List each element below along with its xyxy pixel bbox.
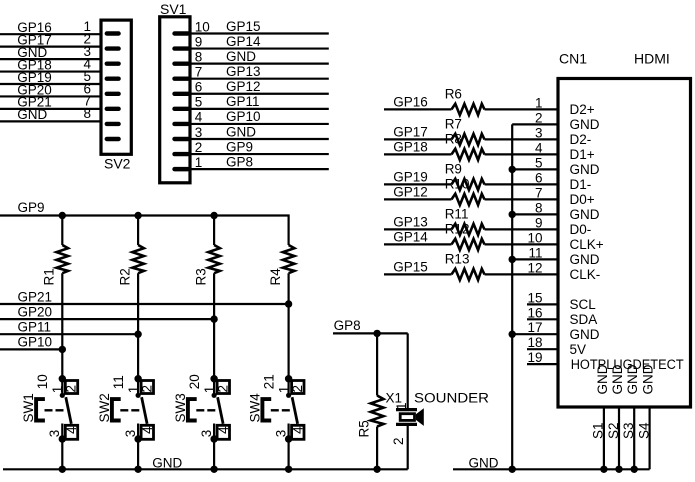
svg-text:11: 11: [528, 245, 542, 260]
svg-text:12: 12: [527, 260, 542, 275]
svg-text:GND: GND: [610, 364, 625, 394]
svg-text:HDMI: HDMI: [634, 50, 670, 66]
svg-text:7: 7: [195, 65, 203, 80]
svg-text:15: 15: [527, 290, 542, 305]
svg-text:4: 4: [216, 426, 231, 434]
svg-text:20: 20: [187, 374, 202, 389]
svg-text:10: 10: [195, 19, 210, 34]
svg-text:R9: R9: [445, 162, 462, 177]
svg-text:R8: R8: [445, 132, 462, 147]
svg-text:GP9: GP9: [18, 200, 45, 215]
svg-text:R13: R13: [445, 252, 470, 267]
svg-text:R6: R6: [445, 87, 462, 102]
svg-text:GP13: GP13: [226, 64, 261, 79]
svg-text:GP12: GP12: [226, 79, 261, 94]
svg-text:S4: S4: [636, 422, 651, 439]
svg-text:D0-: D0-: [570, 222, 592, 237]
svg-text:11: 11: [111, 375, 126, 389]
svg-text:GP9: GP9: [226, 139, 253, 154]
svg-text:1: 1: [50, 386, 65, 394]
svg-text:5: 5: [195, 95, 203, 110]
svg-text:GP10: GP10: [226, 109, 261, 124]
svg-text:GP8: GP8: [334, 318, 361, 333]
svg-text:1: 1: [276, 386, 291, 394]
svg-text:2: 2: [290, 385, 305, 393]
svg-text:GP11: GP11: [226, 94, 260, 109]
svg-text:D2-: D2-: [570, 132, 592, 147]
svg-text:1: 1: [535, 95, 543, 110]
svg-text:GND: GND: [570, 207, 600, 222]
svg-text:GP17: GP17: [393, 125, 428, 140]
svg-text:4: 4: [140, 426, 155, 434]
svg-text:6: 6: [195, 80, 203, 95]
svg-text:GP10: GP10: [18, 335, 53, 350]
svg-text:18: 18: [527, 335, 542, 350]
svg-text:CLK-: CLK-: [570, 267, 601, 282]
svg-text:SDA: SDA: [570, 312, 598, 327]
svg-text:3: 3: [199, 430, 214, 438]
svg-text:CN1: CN1: [559, 50, 587, 66]
svg-text:1: 1: [394, 402, 409, 410]
svg-text:9: 9: [535, 215, 543, 230]
svg-text:R7: R7: [445, 117, 462, 132]
svg-text:S1: S1: [591, 422, 606, 439]
svg-text:R11: R11: [445, 207, 469, 222]
svg-text:8: 8: [535, 200, 543, 215]
svg-text:GND: GND: [570, 117, 600, 132]
svg-text:GP14: GP14: [393, 230, 428, 245]
svg-text:21: 21: [261, 374, 276, 389]
svg-text:3: 3: [195, 125, 203, 140]
svg-text:R10: R10: [445, 177, 470, 192]
svg-text:2: 2: [139, 385, 154, 393]
svg-text:16: 16: [527, 305, 542, 320]
svg-text:SW2: SW2: [97, 393, 112, 422]
svg-text:7: 7: [535, 185, 543, 200]
svg-text:CLK+: CLK+: [570, 237, 604, 252]
svg-text:6: 6: [535, 170, 543, 185]
svg-text:D0+: D0+: [570, 192, 595, 207]
svg-text:GND: GND: [625, 364, 640, 394]
svg-text:GP12: GP12: [393, 185, 428, 200]
svg-text:19: 19: [527, 350, 542, 365]
svg-text:GP13: GP13: [393, 215, 428, 230]
svg-text:4: 4: [290, 426, 305, 434]
svg-text:4: 4: [195, 110, 203, 125]
svg-text:GP19: GP19: [393, 170, 428, 185]
svg-text:GND: GND: [226, 124, 256, 139]
svg-text:R3: R3: [193, 268, 208, 285]
svg-text:2: 2: [64, 385, 79, 393]
svg-text:GND: GND: [469, 455, 499, 470]
svg-text:GP21: GP21: [18, 289, 53, 304]
svg-text:8: 8: [195, 49, 203, 64]
svg-text:1: 1: [195, 155, 203, 170]
svg-text:S2: S2: [606, 422, 621, 439]
svg-text:2: 2: [195, 140, 203, 155]
svg-text:1: 1: [202, 386, 217, 394]
svg-text:R1: R1: [42, 268, 57, 285]
svg-text:GND: GND: [226, 49, 256, 64]
svg-text:5V: 5V: [570, 342, 587, 357]
svg-text:GP20: GP20: [18, 304, 53, 319]
svg-text:5: 5: [535, 155, 543, 170]
svg-text:GND: GND: [595, 364, 610, 394]
svg-text:2: 2: [535, 110, 543, 125]
svg-text:2: 2: [391, 437, 406, 445]
svg-text:3: 3: [47, 430, 62, 438]
svg-text:SV1: SV1: [160, 1, 187, 17]
svg-text:2: 2: [215, 385, 230, 393]
svg-text:GND: GND: [641, 364, 656, 394]
svg-text:SW4: SW4: [248, 393, 263, 423]
svg-text:SV2: SV2: [104, 156, 131, 172]
svg-text:4: 4: [535, 140, 543, 155]
svg-text:3: 3: [123, 430, 138, 438]
svg-text:S3: S3: [621, 422, 636, 439]
svg-text:D1-: D1-: [570, 177, 592, 192]
svg-text:R5: R5: [356, 420, 371, 437]
svg-text:10: 10: [35, 374, 50, 389]
svg-text:SW1: SW1: [21, 393, 36, 422]
svg-text:R4: R4: [268, 268, 283, 286]
svg-text:GP15: GP15: [226, 19, 261, 34]
svg-text:R12: R12: [445, 222, 470, 237]
svg-text:GND: GND: [570, 327, 600, 342]
svg-text:GND: GND: [570, 252, 600, 267]
svg-text:1: 1: [126, 386, 141, 394]
svg-text:10: 10: [527, 230, 542, 245]
svg-text:9: 9: [195, 34, 203, 49]
svg-text:8: 8: [83, 106, 91, 121]
svg-text:GP8: GP8: [226, 154, 253, 169]
svg-text:SCL: SCL: [570, 297, 597, 312]
svg-text:GP14: GP14: [226, 34, 261, 49]
svg-text:3: 3: [535, 125, 543, 140]
svg-text:R2: R2: [117, 268, 132, 285]
svg-text:D1+: D1+: [570, 147, 595, 162]
svg-text:GND: GND: [17, 107, 47, 122]
svg-text:D2+: D2+: [570, 102, 595, 117]
svg-text:3: 3: [273, 430, 288, 438]
svg-text:4: 4: [64, 426, 79, 434]
svg-text:GP18: GP18: [393, 140, 428, 155]
svg-text:17: 17: [527, 320, 542, 335]
svg-text:GP15: GP15: [393, 260, 428, 275]
svg-text:GND: GND: [570, 162, 600, 177]
svg-text:GND: GND: [152, 455, 182, 470]
svg-text:SOUNDER: SOUNDER: [414, 390, 489, 405]
svg-text:GP11: GP11: [18, 320, 52, 335]
svg-text:SW3: SW3: [173, 393, 188, 422]
svg-text:GP16: GP16: [393, 95, 428, 110]
